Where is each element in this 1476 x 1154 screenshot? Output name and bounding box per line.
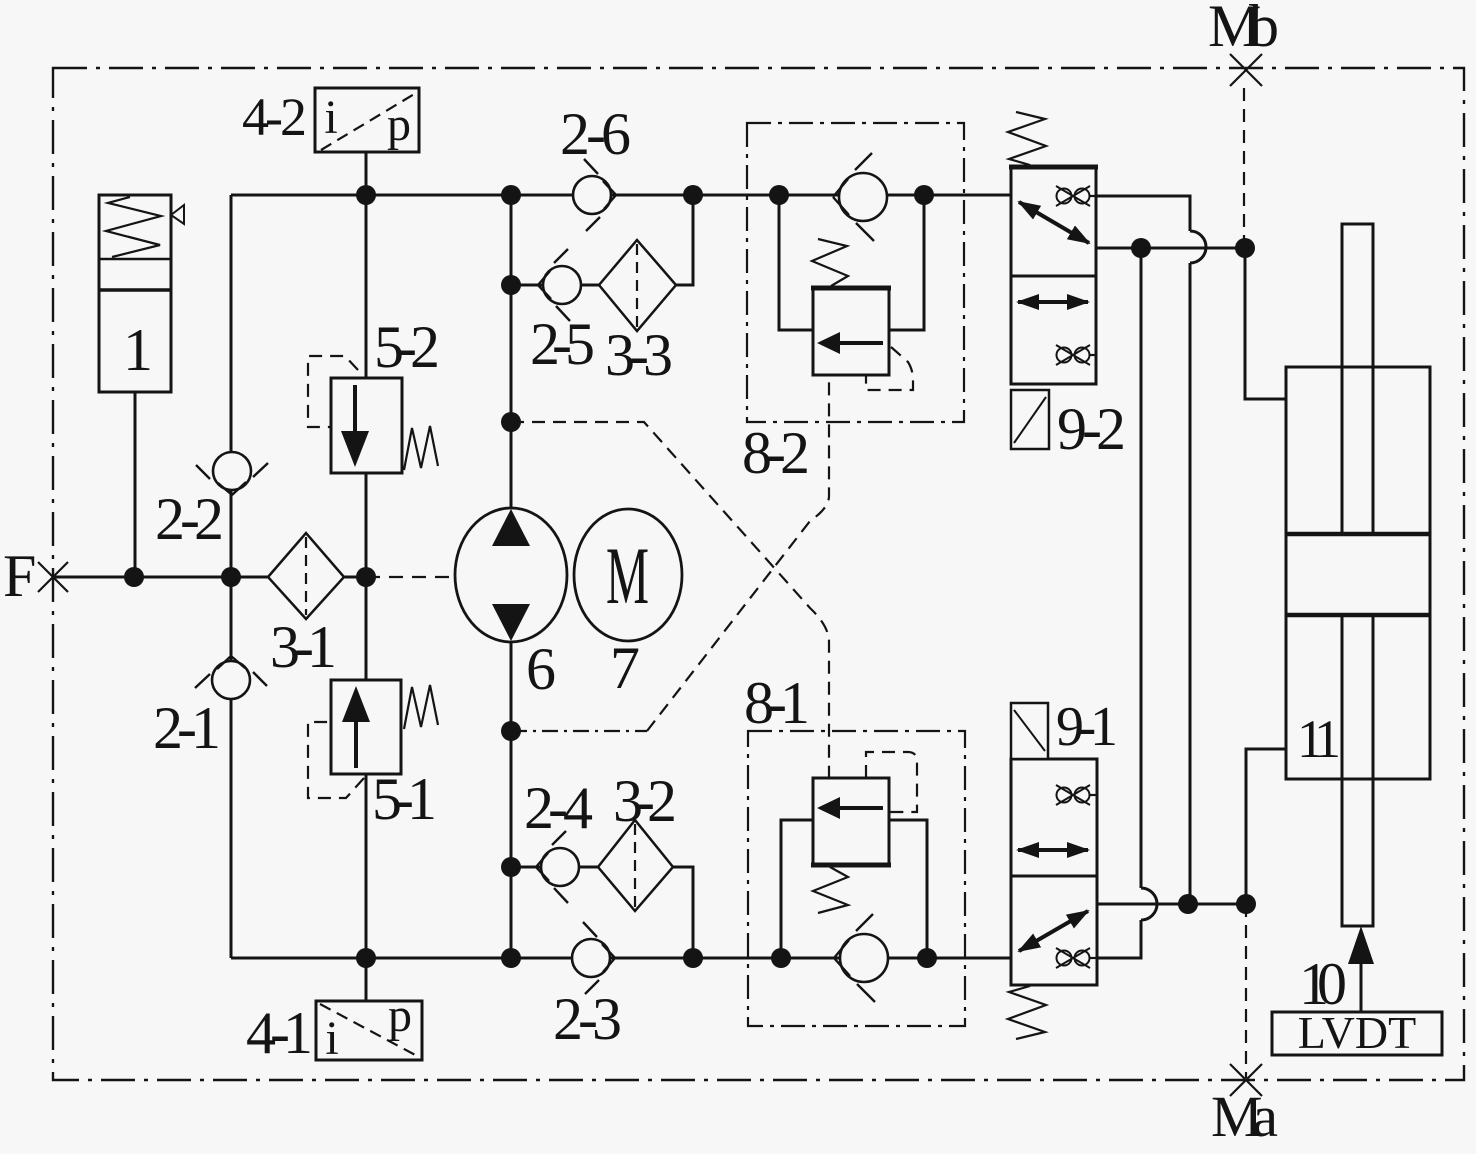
svg-text:1: 1 <box>123 317 153 383</box>
svg-text:1: 1 <box>407 766 437 832</box>
svg-text:1: 1 <box>1090 696 1118 758</box>
svg-text:2: 2 <box>647 768 677 834</box>
svg-text:2: 2 <box>1096 396 1126 462</box>
svg-text:1: 1 <box>283 1000 313 1066</box>
svg-text:6: 6 <box>601 101 631 167</box>
svg-text:2: 2 <box>280 87 307 147</box>
svg-text:7: 7 <box>610 635 640 701</box>
svg-text:0: 0 <box>1317 951 1347 1017</box>
svg-text:1: 1 <box>191 695 221 761</box>
svg-text:M: M <box>606 530 649 621</box>
svg-text:3: 3 <box>592 986 622 1052</box>
svg-text:2: 2 <box>194 486 224 552</box>
svg-text:1: 1 <box>1314 709 1341 769</box>
svg-text:i: i <box>324 91 337 144</box>
svg-text:p: p <box>387 98 411 151</box>
svg-text:2: 2 <box>410 314 440 380</box>
svg-text:b: b <box>1249 0 1279 59</box>
svg-text:1: 1 <box>307 614 337 680</box>
svg-text:i: i <box>325 1012 338 1065</box>
svg-text:F: F <box>3 543 36 609</box>
svg-text:a: a <box>1252 1084 1278 1149</box>
svg-text:1: 1 <box>780 670 810 736</box>
svg-text:2: 2 <box>780 420 810 486</box>
svg-text:4: 4 <box>563 775 593 841</box>
svg-text:p: p <box>388 989 412 1042</box>
svg-text:3: 3 <box>643 322 673 388</box>
svg-text:5: 5 <box>565 311 595 377</box>
svg-text:6: 6 <box>526 636 556 702</box>
